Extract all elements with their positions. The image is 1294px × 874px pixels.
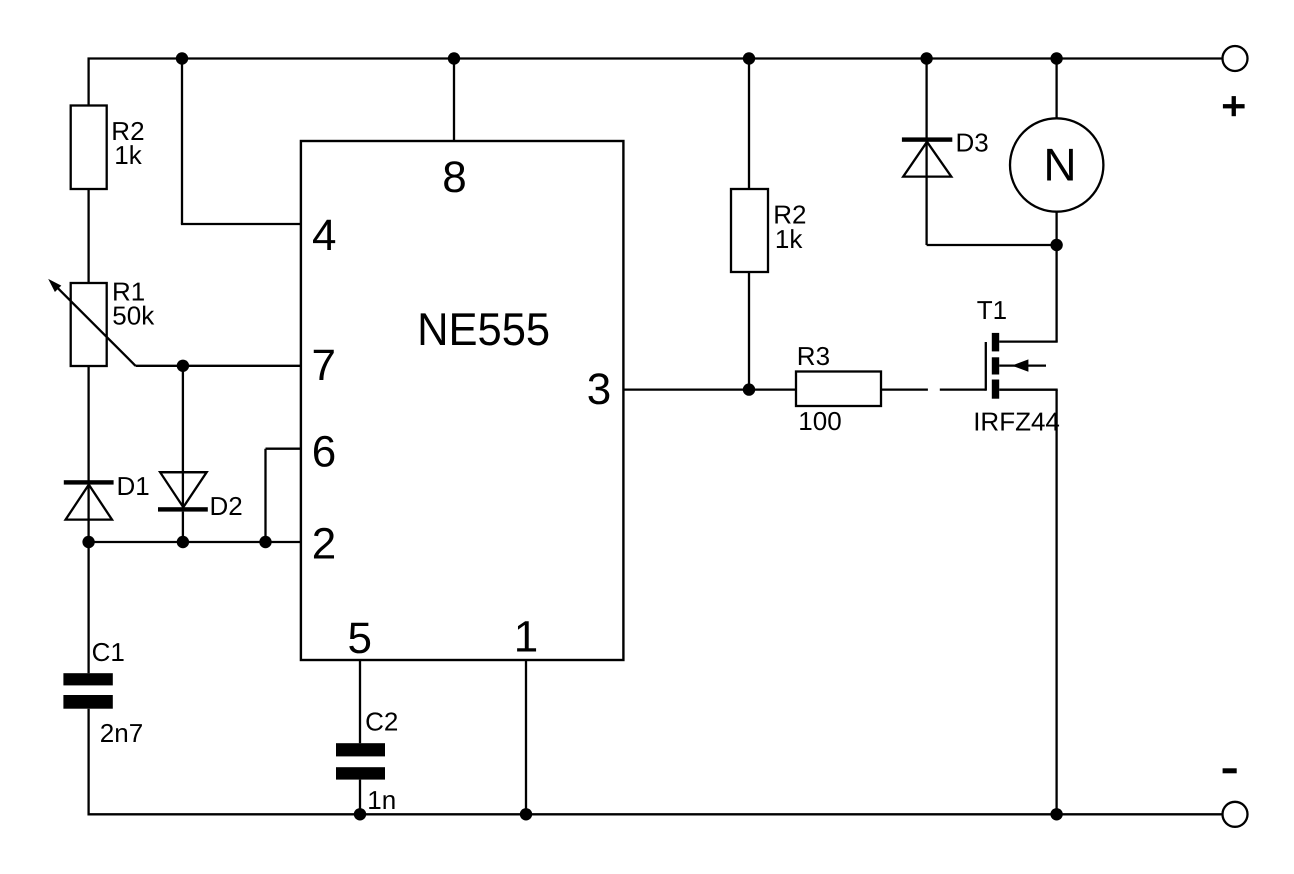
resistor R3 [796,372,881,407]
junction dot pin2 at D2 [177,536,189,548]
svg-text:D1: D1 [117,471,150,501]
wire R2 right branch vertical top [748,59,750,190]
svg-text:2n7: 2n7 [100,718,143,748]
svg-text:1k: 1k [114,140,142,170]
wire D3 to motor bottom node vertical [925,142,927,245]
transistor T1 channel segment source [992,380,999,399]
diode D2 cathode bar [158,507,208,511]
junction dot top rail at motor [1050,52,1062,64]
potentiometer R1 wiper arrowhead [48,279,61,292]
diode D3 triangle [903,142,951,177]
svg-text:7: 7 [312,341,336,390]
junction dot top rail at D3 [920,52,932,64]
junction dot pin2 at pin6 branch [259,536,271,548]
svg-text:6: 6 [312,427,336,476]
wire R2 right to pin3 node [748,272,750,390]
diode D1 cathode bar [64,480,114,484]
junction dot pin7 line [177,360,189,372]
wire pin2 horizontal [89,541,302,543]
wire bottom rail [88,813,1223,815]
wire R1 to D1 [87,366,89,520]
transistor T1 drain lead [999,340,1057,342]
wire pin7 horizontal [136,365,302,367]
wire pin3 output horizontal [624,388,797,390]
wire D2 branch vertical upper [182,366,184,507]
wire D3 to motor bottom node horizontal [927,244,1057,246]
wire D3 branch vertical top [925,59,927,142]
svg-text:1n: 1n [367,785,396,815]
svg-text:1k: 1k [775,224,803,254]
diode D3 cathode bar [902,137,952,141]
svg-text:IRFZ44: IRFZ44 [973,406,1060,436]
terminal minus circle [1223,802,1248,827]
transistor T1 body arrowhead [1012,359,1029,371]
svg-text:R3: R3 [797,341,830,371]
label plus sign [1223,104,1245,108]
diode D2 triangle [160,472,207,507]
svg-text:8: 8 [442,153,466,202]
wire R3 to gate segment 2 [940,388,986,390]
label minus sign [1223,768,1237,773]
junction dot top rail at pin8 [448,52,460,64]
wire motor bottom vertical [1055,212,1057,245]
wire pin4 branch vertical [181,59,183,225]
transistor T1 body lead [999,364,1046,366]
diode D1 triangle [66,485,112,520]
wire C2 to bottom rail [359,780,361,815]
wire top supply rail [88,57,1223,59]
wire pin4 branch horizontal [181,223,302,225]
wire D1 to C1 [87,520,89,674]
wire left vertical top (rail to R2) [87,58,89,106]
terminal plus circle [1223,46,1248,71]
junction dot bottom rail at source [1050,808,1062,820]
motor N circle [1010,118,1103,211]
wire pin6 branch horizontal [266,448,302,450]
op-amp timer IC U1 NE555 box [301,141,624,660]
wire source to bottom rail [1055,390,1057,815]
junction dot bottom rail at pin1 [520,808,532,820]
svg-text:4: 4 [312,211,336,260]
capacitor C2 plate top [336,743,385,756]
wire motor top vertical [1055,59,1057,119]
transistor T1 channel segment body [992,357,999,374]
wire D2 to pin2 line [182,512,184,542]
svg-text:C1: C1 [92,637,125,667]
transistor T1 channel segment drain [992,333,999,352]
wire pin6 branch vertical [264,449,266,542]
svg-text:5: 5 [347,614,371,663]
svg-text:D2: D2 [210,491,243,521]
svg-text:N: N [1043,138,1076,190]
potentiometer R1 wiper diagonal [56,286,136,366]
diode D2 anode top line [160,471,207,473]
wire C1 to bottom rail [87,709,89,816]
junction dot motor bottom node [1050,239,1062,251]
svg-text:2: 2 [312,519,336,568]
junction dot pin3 node [743,383,755,395]
wire pin8 vertical [453,59,455,142]
capacitor C1 plate top [63,673,112,685]
svg-text:C2: C2 [365,707,398,737]
junction dot top rail at pin4 branch [176,52,188,64]
svg-text:D3: D3 [956,128,989,158]
junction dot bottom rail at C2 [354,808,366,820]
wire motor node to drain vertical [1055,245,1057,342]
transistor T1 gate bar [985,342,987,391]
svg-text:T1: T1 [977,295,1007,325]
junction dot pin2 at left column [82,536,94,548]
svg-text:NE555: NE555 [417,303,550,355]
capacitor C1 plate bottom [63,695,112,709]
svg-text:1: 1 [514,613,538,662]
wire R3 to gate segment 1 [881,388,928,390]
wire R2 to R1 [87,189,89,283]
potentiometer R1 body [71,283,107,366]
svg-text:50k: 50k [112,301,155,331]
wire pin5 vertical [359,660,361,743]
junction dot top rail at R2 right [743,52,755,64]
resistor R2 (left) [71,106,107,190]
svg-text:3: 3 [587,365,611,414]
capacitor C2 plate bottom [336,767,385,779]
wire pin1 vertical [525,660,527,814]
svg-text:100: 100 [798,406,841,436]
transistor T1 source lead [999,389,1057,391]
resistor R2 (right) [731,189,768,272]
